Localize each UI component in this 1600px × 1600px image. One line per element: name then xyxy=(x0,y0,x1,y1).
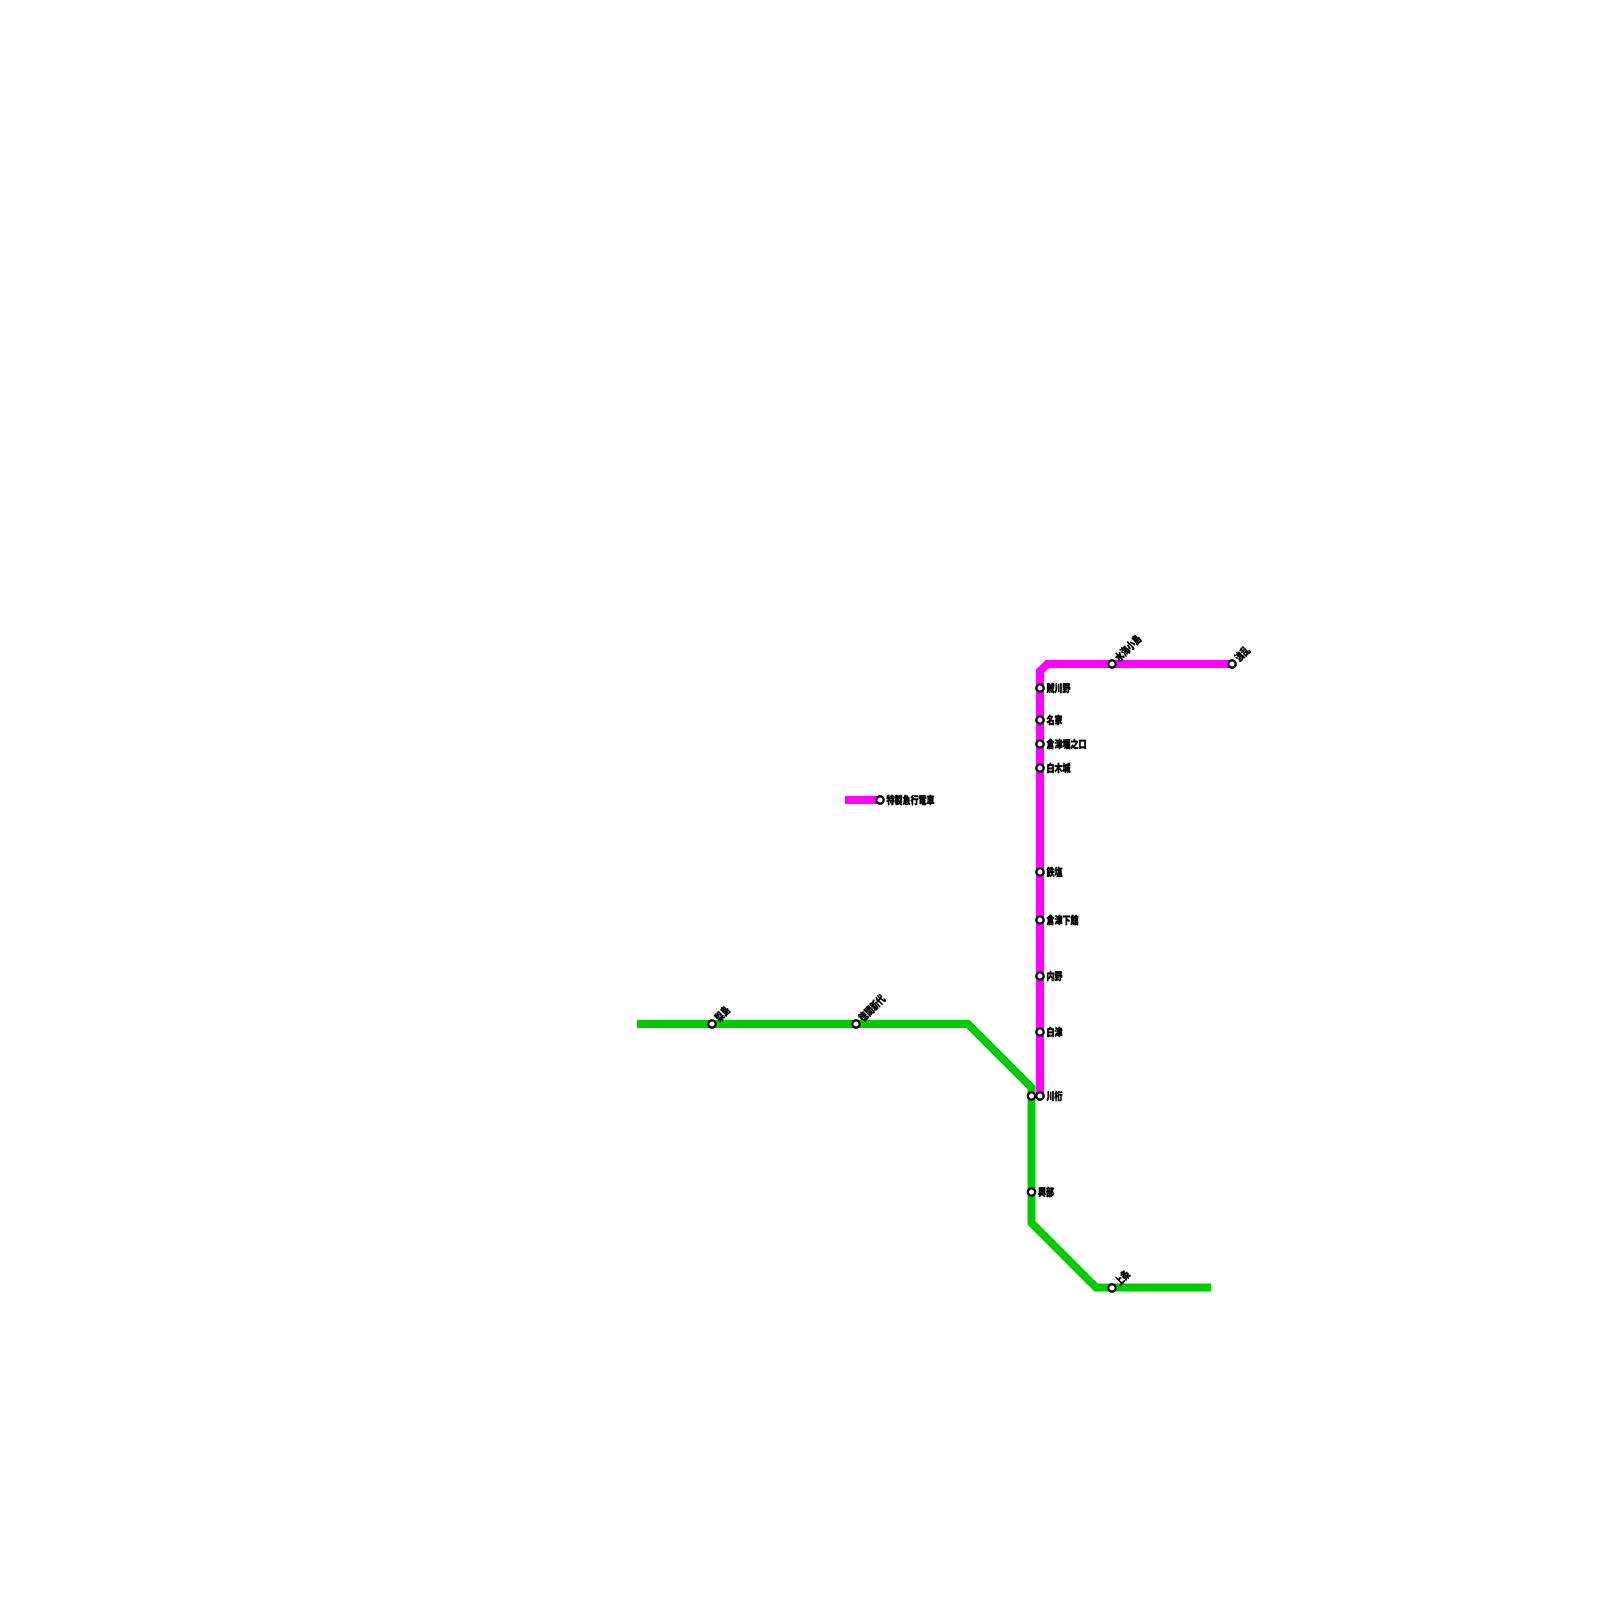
green line 川桁線 xyxy=(637,1024,1211,1288)
station 倉津下館 xyxy=(1036,916,1043,923)
station 名家 xyxy=(1036,716,1043,723)
station 白木城 xyxy=(1036,764,1043,771)
station 水海小島 xyxy=(1108,660,1115,667)
legend line sample xyxy=(845,796,877,804)
station 興部 xyxy=(1028,1188,1035,1195)
station 梨島 xyxy=(708,1020,715,1027)
magenta line 特急行電車線 xyxy=(1040,664,1232,1096)
station 上条 xyxy=(1108,1284,1115,1291)
station 倉津堀之口 xyxy=(1036,740,1043,747)
station 徳間新代 xyxy=(852,1020,859,1027)
station 浪乱 xyxy=(1228,660,1235,667)
station 白津 xyxy=(1036,1028,1043,1035)
station 賊川野 xyxy=(1036,684,1043,691)
interchange 川桁 green circle xyxy=(1028,1092,1035,1099)
legend station 特製急行電車 xyxy=(876,796,883,803)
station 内野 xyxy=(1036,972,1043,979)
interchange 川桁 magenta circle + label xyxy=(1036,1092,1043,1099)
station 鉄塩 xyxy=(1036,868,1043,875)
